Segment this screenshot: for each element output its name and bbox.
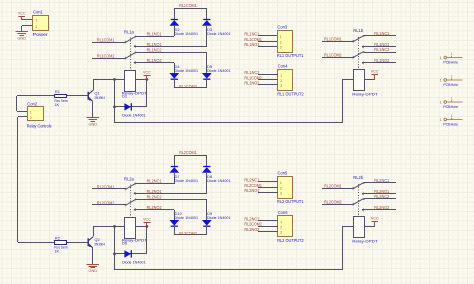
svg-text:2: 2 (280, 40, 282, 44)
relay actuation dashed line RL1b (358, 37, 360, 69)
relay actuation dashed line RL2a (130, 185, 132, 218)
svg-text:1: 1 (440, 78, 442, 82)
wire common RL2COM2 (322, 204, 354, 206)
power VCC (coil 4) (371, 215, 379, 226)
wire contact RL1NC2 (364, 52, 396, 54)
wire contact RL1NC1 (136, 36, 174, 38)
wire pin 2 of Con2 (27, 116, 29, 118)
wire coil 1 to VCC (136, 79, 147, 81)
contact dot RL2NC1 (135, 183, 137, 185)
contact marker RL2COM1 (353, 187, 355, 189)
svg-text:RL1NC2: RL1NC2 (147, 48, 163, 53)
contact marker RL1NO1 (362, 46, 364, 48)
transistor Q1 (88, 90, 93, 101)
svg-text:Con1: Con1 (33, 10, 44, 15)
wire cathode of D3 (206, 9, 208, 20)
wire to R2 (18, 242, 54, 244)
wire common RL2COM1 (92, 188, 126, 190)
wire Con2 pin 2 stub (18, 116, 27, 118)
wire contact RL2NC2 (364, 198, 396, 200)
mechanical hole H1 (PCBHole) (440, 52, 463, 64)
svg-text:Relay-DPDT: Relay-DPDT (352, 238, 378, 243)
contact marker RL1NO2 (362, 62, 364, 64)
wire VCC node down to D6 cathode (146, 226, 148, 254)
diode D7 (169, 167, 179, 173)
junction collector node (113, 78, 116, 81)
svg-text:Con3: Con3 (277, 25, 288, 30)
wire bridge RL1COM2 (174, 87, 207, 89)
svg-text:RL1NC2: RL1NC2 (374, 47, 390, 52)
svg-text:Con2: Con2 (27, 101, 38, 106)
wire common RL2COM2 (92, 204, 126, 206)
wire pin 1 of Con2 (27, 110, 29, 112)
wire common RL1COM1 (322, 41, 354, 43)
contact marker RL2NO2 (362, 209, 364, 211)
wire common RL1COM1 (92, 42, 126, 44)
svg-text:R2: R2 (55, 236, 61, 241)
svg-text:Relay-DPDT: Relay-DPDT (352, 91, 378, 96)
wire anode of D2 (174, 26, 176, 36)
wire flyback D6 branch (114, 253, 147, 255)
svg-text:RL2NO2: RL2NO2 (244, 227, 260, 232)
svg-text:2N3904: 2N3904 (94, 95, 105, 100)
wire cathode of D4 (174, 79, 176, 88)
svg-text:RL1COM1: RL1COM1 (97, 37, 115, 42)
svg-text:Con6: Con6 (278, 210, 289, 215)
wire pin 2 of Con1 (32, 25, 34, 27)
svg-text:RL1NO2: RL1NO2 (244, 81, 260, 86)
wire pin 1 of Con6 (258, 220, 278, 222)
connector Con3 (278, 31, 293, 53)
svg-text:1: 1 (280, 74, 282, 78)
svg-text:RL2NC1: RL2NC1 (147, 179, 163, 184)
svg-text:3: 3 (280, 231, 282, 235)
wire contact RL1NC1 (364, 35, 396, 37)
wire contact RL1NO1 (362, 46, 396, 48)
svg-text:1: 1 (280, 220, 282, 224)
svg-text:1: 1 (451, 97, 453, 101)
svg-text:VCC: VCC (18, 11, 26, 16)
power VCC (coil 2) (371, 68, 379, 79)
svg-text:RL1NC1: RL1NC1 (244, 32, 260, 37)
svg-text:2: 2 (30, 116, 32, 120)
contact dot RL1NC1 (363, 35, 365, 37)
junction D1 anode (113, 106, 116, 109)
wire coil 4 to VCC (365, 226, 375, 228)
junction collector node 2 (113, 225, 116, 228)
svg-text:RL2NC2: RL2NC2 (244, 216, 260, 221)
svg-text:RL1COM2: RL1COM2 (324, 53, 342, 58)
wire anode of D4 (174, 63, 176, 73)
svg-text:1: 1 (35, 19, 37, 23)
wire coil drive to right coil 4 (long) (114, 269, 343, 271)
relay actuation dashed line RL1a (130, 38, 132, 71)
wire collector node to coil 1 (93, 79, 124, 81)
svg-text:1: 1 (440, 100, 442, 104)
wire coil 2 to VCC (365, 79, 375, 81)
diode D5 (202, 73, 212, 79)
switch arm RL1COM2 (354, 52, 363, 57)
svg-text:GND: GND (89, 269, 98, 273)
wire coil 3 to VCC (136, 226, 147, 228)
wire contact RL2NO2 (134, 209, 174, 211)
diode D9 (202, 220, 212, 226)
svg-text:Diode 1N4001: Diode 1N4001 (175, 31, 199, 36)
svg-text:Diode 1N4001: Diode 1N4001 (175, 68, 199, 73)
power VCC (coil 3) (143, 217, 151, 227)
svg-text:VCC: VCC (371, 68, 379, 73)
connector Con4 (278, 70, 293, 91)
wire anode of D9 (206, 199, 208, 220)
svg-text:1: 1 (440, 118, 442, 122)
wire pin 1 of Con1 (32, 19, 34, 21)
power VCC (Con1) (18, 11, 26, 21)
wire cathode of D5 (206, 79, 208, 88)
resistor R1 (55, 95, 67, 98)
svg-text:PCBHole: PCBHole (443, 82, 458, 87)
relay coil K1b (354, 70, 365, 91)
wire VCC to Con1 pin 1 (22, 19, 33, 21)
mechanical hole H3 (PCBHole) (440, 97, 463, 109)
ground GND (Q2) (87, 265, 100, 274)
wire R2 to Q2 base (67, 242, 88, 244)
wire down to GND symbol (21, 26, 23, 32)
switch arm RL1COM2 (126, 53, 135, 58)
svg-text:2: 2 (35, 25, 37, 29)
mechanical hole H2 (PCBHole) (440, 75, 463, 87)
svg-text:Diode 1N4001: Diode 1N4001 (207, 178, 231, 183)
contact dot RL2NC2 (363, 198, 365, 200)
wire anode of D7 (174, 173, 176, 184)
contact dot RL1NC1 (135, 36, 137, 38)
svg-text:3: 3 (280, 84, 282, 88)
wire anode of D10 (174, 210, 176, 220)
switch arm RL2COM1 (354, 183, 363, 188)
svg-text:RL1NC1: RL1NC1 (147, 32, 163, 37)
svg-text:RL2NC2: RL2NC2 (147, 195, 163, 200)
wire contact RL1NO2 (134, 62, 174, 64)
svg-text:1: 1 (451, 114, 453, 118)
wire contact RL1NO1 (134, 46, 207, 48)
svg-text:RL1COM2: RL1COM2 (179, 84, 197, 89)
connector Con1 (33, 16, 49, 31)
wire pin 2 of Con4 (258, 79, 278, 81)
contact marker RL2COM1 (125, 188, 127, 190)
wire collector node to coil 3 (93, 226, 124, 228)
resistor R2 (55, 241, 67, 245)
svg-text:GND: GND (17, 37, 26, 41)
diode D2 (169, 20, 179, 26)
svg-text:1: 1 (451, 75, 453, 79)
wire anode of D3 (206, 26, 208, 46)
svg-text:RL2COM1: RL2COM1 (179, 150, 197, 155)
wire down to R2 (long left vertical) (17, 117, 19, 242)
wire contact RL2NO1 (362, 193, 396, 195)
wire Con1 pin 2 to GND (22, 25, 33, 27)
svg-text:D1: D1 (122, 94, 128, 99)
diode D1 (124, 103, 131, 110)
svg-text:1: 1 (440, 56, 442, 60)
svg-text:RL1NO1: RL1NO1 (244, 42, 260, 47)
svg-text:RL1COM1: RL1COM1 (324, 37, 342, 42)
svg-text:RL1a: RL1a (124, 29, 135, 34)
wire cathode of D9 (206, 226, 208, 235)
wire contact RL2NO1 (134, 193, 207, 195)
wire contact RL1NO2 (362, 62, 396, 64)
contact marker RL2NO1 (134, 192, 136, 194)
diode D8 (202, 167, 212, 173)
wire cathode of D10 (174, 226, 176, 235)
svg-text:3: 3 (280, 46, 282, 50)
wire pin 2 of Con3 (258, 41, 277, 43)
wire VCC node down to D1 cathode (146, 79, 148, 107)
wire up to coil 2 (342, 79, 344, 123)
wire bridge RL1COM1 (174, 8, 207, 10)
wire bridge RL2COM2 (174, 234, 207, 236)
contact marker RL2COM2 (353, 203, 355, 205)
svg-text:VCC: VCC (143, 70, 151, 75)
switch arm RL2COM2 (126, 200, 135, 205)
svg-text:R1: R1 (55, 89, 61, 94)
svg-text:RL1NC2: RL1NC2 (244, 70, 260, 75)
relay coil K2b (354, 217, 365, 238)
svg-text:Diode 1N4001: Diode 1N4001 (207, 68, 231, 73)
wire common RL1COM2 (322, 57, 354, 59)
wire common RL1COM2 (92, 58, 126, 60)
wire cathode of D8 (206, 156, 208, 166)
svg-text:2: 2 (280, 225, 282, 229)
switch arm RL2COM2 (354, 199, 363, 204)
svg-text:Con4: Con4 (278, 64, 289, 69)
svg-text:1: 1 (280, 35, 282, 39)
svg-text:Power: Power (33, 32, 49, 37)
svg-text:2: 2 (280, 186, 282, 190)
wire contact RL2NC1 (364, 182, 396, 184)
wire Q2 emitter (92, 248, 94, 264)
contact marker RL1NO1 (134, 45, 136, 47)
ground GND (Q1) (87, 118, 100, 127)
svg-text:RL1 OUTPUT1: RL1 OUTPUT1 (277, 53, 304, 58)
svg-text:RL1b: RL1b (353, 28, 364, 33)
svg-text:Diode 1N4001: Diode 1N4001 (175, 215, 199, 220)
wire Q2 collector (93, 226, 95, 236)
wire up to R1 (16, 96, 18, 111)
wire pin 3 of Con5 (258, 192, 278, 194)
svg-text:RL1 OUTPUT2: RL1 OUTPUT2 (277, 91, 304, 96)
relay actuation dashed line RL2b (358, 184, 360, 216)
wire Con2 pin 1 stub (17, 111, 27, 113)
svg-text:1: 1 (30, 111, 32, 115)
wire collector node 2 down (114, 226, 116, 270)
svg-text:Diode 1N4001: Diode 1N4001 (122, 113, 146, 118)
svg-text:RL2NO1: RL2NO1 (244, 188, 260, 193)
wire anode of D8 (206, 173, 208, 193)
wire coil drive to right coil (long) (114, 122, 343, 124)
svg-text:RL2 OUTPUT1: RL2 OUTPUT1 (277, 199, 304, 204)
svg-text:PCBHole: PCBHole (443, 122, 458, 127)
wire R1 to Q1 base (67, 95, 88, 97)
wire contact RL1NC2 (136, 52, 207, 54)
wire pin 2 of Con6 (258, 226, 278, 228)
svg-text:RL2COM2: RL2COM2 (324, 200, 342, 205)
wire up to coil 4 (342, 226, 344, 270)
wire pin 3 of Con3 (258, 46, 277, 48)
svg-text:Diode 1N4001: Diode 1N4001 (207, 31, 231, 36)
contact dot RL1NC2 (135, 52, 137, 54)
svg-text:RL1COM1: RL1COM1 (179, 3, 197, 8)
contact dot RL1NC2 (363, 51, 365, 53)
diode D10 (169, 220, 179, 226)
wire to R1 (17, 95, 55, 97)
svg-text:RL2 OUTPUT2: RL2 OUTPUT2 (277, 238, 304, 243)
svg-text:VCC: VCC (143, 217, 151, 222)
svg-text:Diode 1N4001: Diode 1N4001 (175, 178, 199, 183)
svg-text:2N3904: 2N3904 (94, 241, 105, 246)
contact marker RL1COM1 (353, 40, 355, 42)
svg-text:RL2NC1: RL2NC1 (244, 178, 260, 183)
contact dot RL2NC1 (363, 182, 365, 184)
mechanical hole H4 (PCBHole) (440, 114, 463, 126)
connector Con2 (28, 107, 44, 121)
wire contact RL2NC2 (136, 199, 207, 201)
connector Con5 (278, 177, 293, 199)
switch arm RL1COM1 (354, 36, 363, 41)
transistor Q2 (88, 237, 93, 248)
svg-text:1: 1 (280, 181, 282, 185)
relay coil K2a (125, 218, 136, 239)
wire flyback D1 branch (114, 106, 147, 108)
svg-text:RL2COM1: RL2COM1 (324, 184, 342, 189)
wire pin 2 of Con5 (258, 187, 278, 189)
relay coil K1a (125, 71, 136, 92)
svg-text:RL2a: RL2a (124, 176, 135, 181)
switch arm RL2COM1 (126, 184, 135, 189)
svg-text:1K: 1K (54, 102, 59, 107)
svg-text:RL1COM2: RL1COM2 (97, 53, 115, 58)
wire pin 3 of Con6 (258, 231, 278, 233)
wire bridge RL2COM1 (174, 155, 207, 157)
svg-text:VCC: VCC (371, 215, 379, 220)
wire common RL2COM1 (322, 188, 354, 190)
contact marker RL2NO2 (134, 208, 136, 210)
svg-text:PCBHole: PCBHole (443, 104, 458, 109)
wire into coil 2 (343, 79, 353, 81)
contact marker RL1COM1 (125, 41, 127, 43)
contact marker RL2COM2 (125, 204, 127, 206)
junction VCC node (146, 78, 149, 81)
contact marker RL1COM2 (125, 57, 127, 59)
svg-text:Relay Controls: Relay Controls (27, 123, 52, 128)
svg-text:D6: D6 (122, 241, 128, 246)
svg-text:GND: GND (89, 123, 98, 127)
svg-text:1: 1 (451, 52, 453, 56)
diode D4 (169, 73, 179, 79)
wire pin 1 of Con5 (258, 181, 278, 183)
svg-text:Diode 1N4001: Diode 1N4001 (207, 215, 231, 220)
contact marker RL1NO2 (134, 61, 136, 63)
wire Q1 collector (93, 79, 95, 90)
wire pin 1 of Con3 (258, 35, 277, 37)
power VCC (coil 1) (143, 70, 151, 80)
wire anode of D5 (206, 52, 208, 73)
diode D3 (202, 20, 212, 26)
contact marker RL1COM2 (353, 56, 355, 58)
switch arm RL1COM1 (126, 37, 135, 42)
svg-text:Diode 1N4001: Diode 1N4001 (122, 260, 146, 265)
svg-text:Con5: Con5 (278, 171, 289, 176)
svg-text:3: 3 (280, 192, 282, 196)
wire pin 1 of Con4 (258, 74, 278, 76)
wire contact RL2NO2 (362, 209, 396, 211)
svg-text:PCBHole: PCBHole (443, 60, 458, 65)
contact dot RL2NC2 (135, 199, 137, 201)
junction VCC node 2 (146, 225, 149, 228)
svg-text:RL2COM2: RL2COM2 (244, 222, 262, 227)
diode D6 (124, 250, 131, 257)
wire cathode of D7 (174, 156, 176, 166)
wire into coil 4 (343, 226, 353, 228)
wire pin 3 of Con4 (258, 84, 278, 86)
svg-text:RL2COM2: RL2COM2 (179, 231, 197, 236)
junction D6 anode (113, 253, 116, 256)
wire collector node down (114, 79, 116, 123)
svg-text:2: 2 (280, 79, 282, 83)
connector Con6 (278, 216, 293, 237)
wire cathode of D2 (174, 9, 176, 20)
svg-text:RL2b: RL2b (353, 175, 364, 180)
contact marker RL2NO1 (362, 193, 364, 195)
ground GND (Con1) (15, 32, 28, 41)
svg-text:1K: 1K (54, 248, 59, 253)
wire contact RL2NC1 (136, 183, 174, 185)
wire Q1 emitter (92, 101, 94, 118)
